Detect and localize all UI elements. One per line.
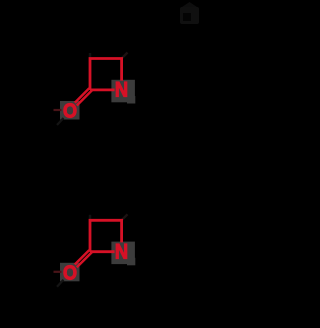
svg-text:N: N [115,78,128,102]
svg-text:O: O [63,101,77,123]
